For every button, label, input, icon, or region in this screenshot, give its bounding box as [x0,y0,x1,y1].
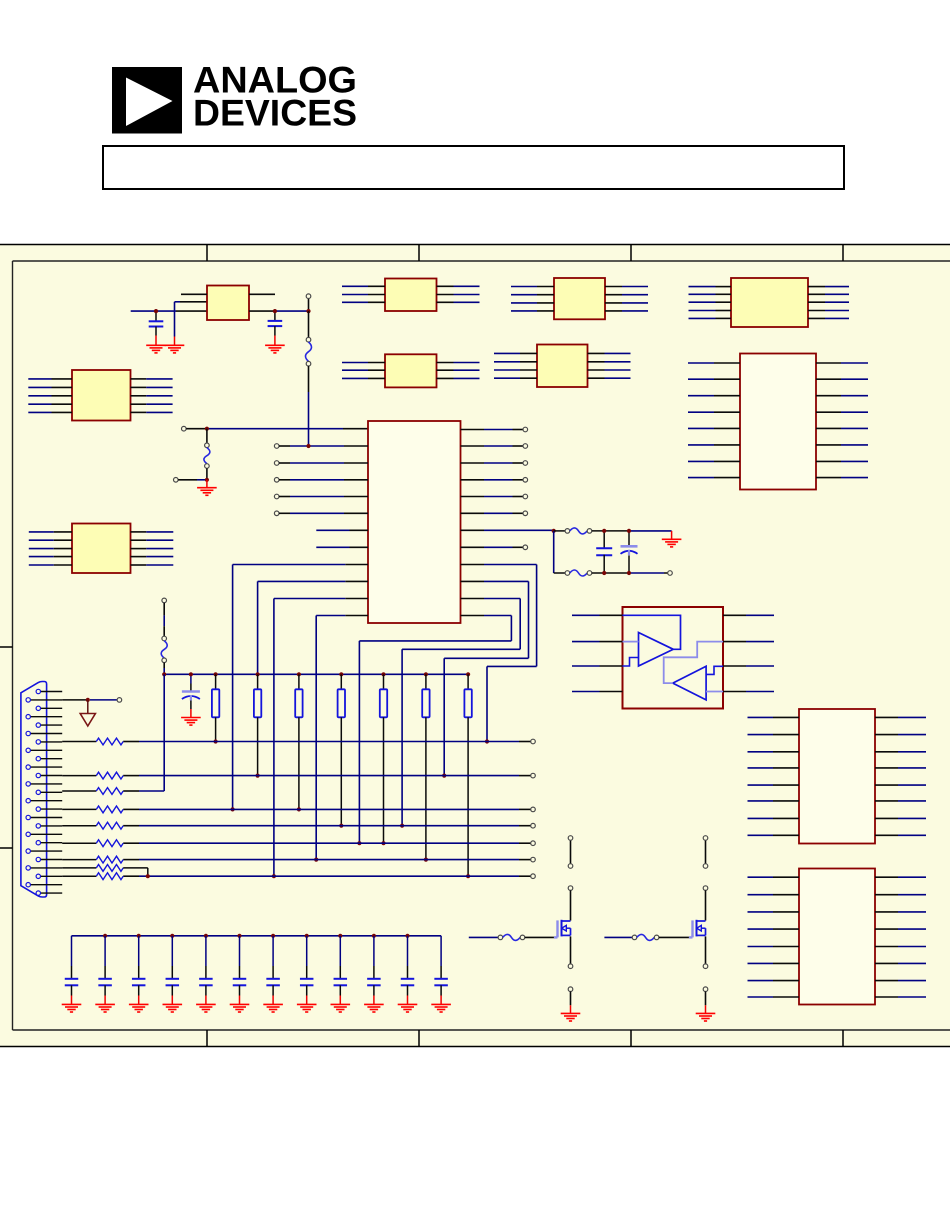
wire source [570,936,572,964]
wire U10-R9 to row1 [461,565,537,742]
wire source [705,936,707,964]
wire U10-L12 to row7 [316,616,345,860]
junction R3 row [297,807,301,811]
junction R4 row [339,824,343,828]
terminal pin filter out [668,571,673,576]
regulator U1 [207,286,249,321]
junction cap bank C13 [305,934,309,938]
junction C2 [273,309,277,313]
capacitor C1 [149,311,164,345]
resistor RS8 [62,865,123,872]
terminal pin row r8 [531,874,536,879]
terminal pin row r2 [531,773,536,778]
wire row r1 [123,741,530,743]
wire U1 pin1 stub left [181,293,207,295]
U2 pins [342,286,480,302]
terminal pins drain jumper [705,840,707,863]
U10 left pins rows 7-8 [316,530,368,547]
svg-text:DEVICES: DEVICES [193,93,357,134]
junction output [306,309,310,313]
junction cap bank C10 [204,934,208,938]
terminal pin source gnd [568,987,573,992]
ground C1 [146,345,166,353]
wire gate black [525,936,554,938]
junction R1 row [214,739,218,743]
wire A2 enable [706,691,723,693]
wire gate black [659,936,689,938]
junction cap bank C11 [237,934,241,938]
junction bus R3 [297,672,301,676]
ground Q [561,1013,581,1021]
wire source gnd [570,992,572,1014]
terminal pin agnd [117,698,122,703]
U11 outer pins [572,615,774,691]
capacitor CB11 [401,936,415,1005]
ground JP1 [197,488,217,496]
ground CB3 [129,1004,149,1012]
wire U10-L11 to row8 [274,599,345,877]
terminal pin row r7 [531,857,536,862]
capacitor CB4 [166,936,180,1005]
chassis ground triangle [80,700,95,726]
terminal pin row r6 [531,841,536,846]
resistor R3 [295,674,302,809]
wire row r8 [123,875,530,877]
terminal pin row r4 [531,807,536,812]
IC U8 [72,370,131,421]
transistor Q [689,920,706,938]
wire JP1 top [186,428,368,430]
IC U3 [554,278,605,319]
wire RS8 drop to row8 [123,868,148,876]
capacitor CB8 [300,936,314,1005]
wire J1 pin14 analog gnd [62,699,117,701]
transistor Q [554,920,571,938]
capacitor C2 [268,311,283,345]
IC U6 [537,345,588,388]
resistor R7 [464,674,471,876]
wire gate [469,936,498,938]
decoupling bus [72,935,442,937]
resistor RS6 [62,840,123,847]
ground CB7 [263,1004,283,1012]
U13 pins [748,877,927,997]
wire row r2 [123,775,530,777]
capacitor CB7 [266,936,280,1005]
capacitor C3 [182,674,200,717]
U8 pins [28,379,172,413]
U10 left pins rows 2-6 [274,444,368,516]
junction bus left [162,672,166,676]
wire gate [604,936,632,938]
terminal pin row r5 [531,823,536,828]
wire drain [705,890,707,920]
U12 pins [748,717,927,835]
wire row r4 [123,808,530,810]
wire U10-R10 to row2 [444,581,528,775]
wire A1 enable [623,658,639,667]
ADI logo wordmark ANALOG DEVICES [193,60,357,134]
wire U10-R7 to filter [461,529,554,531]
U10 right pins rows 1-6,8 with terminals [461,427,528,549]
U9 pins [29,532,174,565]
wire A2 input [706,666,723,674]
ground filter [662,539,682,547]
junction filter in [552,529,556,533]
resistor RS4 [62,806,123,813]
J1 pin circles [26,689,41,895]
junction R5 row [381,841,385,845]
ground CB5 [196,1004,216,1012]
wire L2 to bus [163,663,165,675]
wire output rail [249,310,309,312]
U4 pins [689,287,850,319]
junction agnd [86,698,90,702]
terminal pin drain [568,886,573,891]
wire A2 out chain [664,642,723,684]
capacitor CB10 [367,936,381,1005]
junction cap bank C16 [405,934,409,938]
terminal pin source [568,964,573,969]
terminal pin source gnd [703,987,708,992]
sheet outer border top [0,244,950,246]
schematic sheet background [0,244,950,1047]
junction R6 row [424,858,428,862]
wire drain [570,890,572,920]
resistor RS1 [62,738,123,745]
junction JP1 [205,427,209,431]
capacitor CB12 [434,936,448,1005]
ferrite bead L1 [308,311,310,337]
junction bus R6 [424,672,428,676]
wire filter top rail [592,531,672,539]
ground CB11 [398,1004,418,1012]
border zone ticks [0,244,843,1047]
terminal pin drain [703,886,708,891]
wire A1 out to pin1 [623,615,681,649]
terminal pin pullup rail [162,598,167,603]
U3 pins [511,287,648,311]
junction bus R4 [339,672,343,676]
resistor RS9 [62,873,123,880]
ADI logo mark [112,67,182,134]
ground CB6 [230,1004,250,1012]
junction cap bank C12 [271,934,275,938]
junction R2 row [256,774,260,778]
IC U12 [799,709,875,844]
wire U10-L10 to pullup bus [258,581,346,674]
wire gnd lead [206,480,208,488]
resistor RS5 [62,822,123,829]
ground CB4 [163,1004,183,1012]
sheet inner border [13,261,950,1030]
wire A1 input [623,641,639,643]
terminal pins drain jumper [570,840,572,863]
wire source gnd [705,992,707,1014]
jumper JP1 [206,429,208,443]
ground CB9 [331,1004,351,1012]
resistor R2 [254,674,261,775]
terminal pin row r1 [531,739,536,744]
resistor RS3 [62,788,123,795]
IC U2 [385,279,437,312]
resistor R4 [338,674,345,825]
wire filter left vertical [553,531,555,573]
sheet outer border bottom [0,1046,950,1048]
capacitor CB2 [98,936,112,1005]
terminal pin JP1 left [182,426,187,431]
inductor gate jumper [498,935,503,940]
junction bus R5 [381,672,385,676]
ground CB10 [364,1004,384,1012]
IC U4 [731,278,808,327]
junction JP1 gnd [205,478,209,482]
junction cap bank C14 [338,934,342,938]
resistor R1 [212,674,219,741]
junction cap bank C8 [137,934,141,938]
wire input rail [131,310,207,312]
ground CB2 [95,1004,115,1012]
inductor L3 top [554,530,565,532]
resistor RS2 [62,772,123,779]
wire regulator gnd pin [175,302,208,346]
wire bus to row3 [163,674,165,791]
buffer A2 [673,666,706,700]
ground C3 [181,718,201,726]
title block box [103,146,844,189]
IC U11 buffer [623,607,724,709]
buffer A1 [639,633,674,667]
U6 pins [494,353,631,378]
junction cap bank C15 [372,934,376,938]
wire U10-R12 to row6 [359,616,511,844]
wire JP1 bottom [178,479,207,481]
ferrite bead L2 [163,603,165,636]
ground CB8 [297,1004,317,1012]
ground CB1 [62,1004,82,1012]
junction R7 row [466,874,470,878]
wire U10-R11 to row5 [402,599,520,826]
ground regulator [165,345,185,353]
resistor RS7 [62,856,123,863]
U10 left pin stubs rows 9-12 [345,565,368,616]
ground C2 [265,345,285,353]
wire row r7 [123,859,530,861]
connector J1 DB25 [21,682,47,898]
capacitor CB6 [233,936,247,1005]
wire U1 pin out stub right [249,293,275,295]
wire row r5 [123,825,530,827]
capacitor CB5 [199,936,213,1005]
capacitor C4 [596,531,612,573]
wire row r3 [123,790,164,792]
IC U9 [72,524,131,574]
resistor R6 [422,674,429,859]
terminal pin above output [308,299,310,312]
junction U10 pin2 [306,444,310,448]
junction C1 [154,309,158,313]
inductor L4 bottom [554,572,565,574]
junction cap bank C9 [170,934,174,938]
IC U10 [368,421,461,623]
IC U13 [799,869,875,1005]
capacitor CB9 [334,936,348,1005]
IC U5 [385,354,437,387]
wire JP1 to ground [206,468,208,480]
wire U10-L9 to row4 [233,565,346,810]
junction bus R7 [466,672,470,676]
IC U7 [740,354,816,490]
junction bus R1 [214,672,218,676]
ground Q [696,1013,716,1021]
junction cap bank C7 [103,934,107,938]
J1 pin stubs [30,692,62,894]
wire filter bottom rail [592,572,668,574]
junction bus R2 [256,672,260,676]
capacitor CB1 [65,936,79,1005]
wire row r6 [123,842,530,844]
terminal pin JP1 bottom [174,478,179,483]
pullup bus [164,673,468,675]
terminal pin source [703,964,708,969]
inductor gate jumper [632,935,637,940]
resistor R5 [380,674,387,843]
U5 pins [342,363,480,379]
ground CB12 [431,1004,451,1012]
U7 pins [688,363,868,478]
wire L1 down to U10 [308,366,310,446]
capacitor CB3 [132,936,146,1005]
capacitor C5 [621,531,638,573]
